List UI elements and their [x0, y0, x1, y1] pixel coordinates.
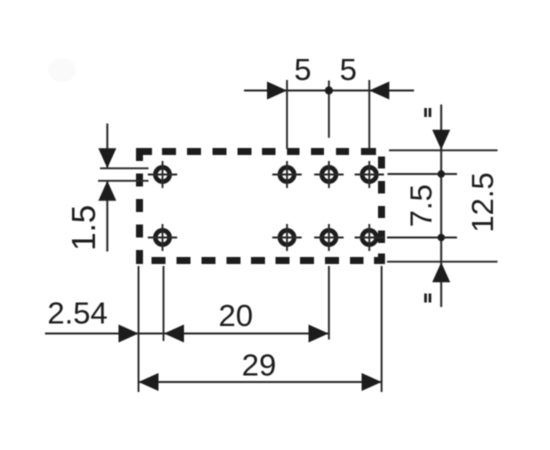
svg-text:1.5: 1.5 — [65, 205, 102, 251]
dimension 5-5 top: dimension line — [244, 90, 414, 92]
label 29 — [242, 348, 276, 383]
hole pin top-left — [148, 161, 177, 188]
dimension 5-5: left arrowhead — [267, 82, 287, 100]
dimension 7.5: upper dot — [438, 170, 445, 177]
dimension 5-5: centre extension line at hole column 3 — [328, 81, 330, 138]
dimension 1.5: up arrowhead — [98, 181, 116, 201]
dimension 29: left arrowhead — [139, 373, 159, 391]
extension line below body right edge — [381, 266, 383, 392]
dimension 2.54: right-pointing arrowhead — [119, 325, 139, 343]
dimension 2.54 and 20: shared dimension line — [45, 333, 329, 335]
svg-text:5: 5 — [294, 52, 311, 87]
dimension 29: dimension line — [139, 381, 382, 383]
svg-text:2.54: 2.54 — [47, 296, 107, 331]
dimension 12.5: top extension line (body top edge) — [389, 149, 498, 151]
hole pin top-mid-right — [314, 161, 343, 188]
svg-text:29: 29 — [242, 348, 276, 383]
svg-text:5: 5 — [340, 52, 357, 87]
svg-text:20: 20 — [219, 298, 253, 333]
dimension 1.5: lower extension line — [98, 180, 149, 182]
hole pin top-right — [355, 161, 384, 188]
dimension 7.5: lower hole row extension line — [387, 237, 457, 239]
dimension 7.5: lower dot — [438, 234, 445, 241]
dimension 12.5: up arrowhead — [432, 262, 450, 282]
dimension 1.5: down arrowhead — [98, 148, 116, 168]
extension line below first hole column — [163, 266, 165, 341]
dimension 12.5: down arrowhead — [432, 130, 450, 150]
dimension 20: left arrowhead — [164, 325, 184, 343]
hole pin bottom-right — [355, 224, 384, 251]
faint smudge top-left — [48, 58, 76, 82]
dimension 1.5: upper vertical dimension line — [106, 124, 108, 169]
dimension 20: right arrowhead — [309, 325, 329, 343]
relay body outline (dashed rectangle) — [136, 148, 385, 264]
extension line below third hole column — [328, 266, 330, 340]
label 5 (right) — [340, 52, 357, 87]
hole pin bottom-mid-left — [272, 224, 301, 251]
dimension 5-5: right extension line at hole column 4 — [368, 80, 370, 149]
dimension 12.5: bottom extension line (body bottom edge) — [387, 261, 498, 263]
equal-spacing mark bottom — [424, 294, 431, 303]
equal-spacing mark top — [424, 108, 431, 117]
label 12.5 (rotated) — [465, 172, 500, 232]
hole pin top-mid-left — [272, 161, 301, 188]
dimension 12.5: vertical dimension line — [440, 105, 442, 308]
label 20 — [219, 298, 253, 333]
dimension 5-5: centre dot — [325, 86, 333, 94]
dimension 5-5: left extension line at hole column 2 — [286, 80, 288, 149]
dimension 29: right arrowhead — [362, 373, 382, 391]
dimension 1.5: upper extension line — [100, 167, 149, 169]
extension line below body left edge — [138, 266, 140, 392]
svg-text:12.5: 12.5 — [465, 172, 500, 232]
label 7.5 (rotated) — [404, 184, 439, 227]
label 1.5 (rotated) — [65, 205, 102, 251]
label 2.54 — [47, 296, 107, 331]
dimension 7.5: upper hole row extension line — [388, 173, 458, 175]
label 5 (left) — [294, 52, 311, 87]
svg-text:7.5: 7.5 — [404, 184, 439, 227]
hole pin bottom-mid-right — [314, 224, 343, 251]
dimension 1.5: lower vertical dimension line — [106, 181, 108, 252]
dimension 5-5: right arrowhead — [369, 82, 389, 100]
hole pin bottom-left — [148, 224, 177, 251]
